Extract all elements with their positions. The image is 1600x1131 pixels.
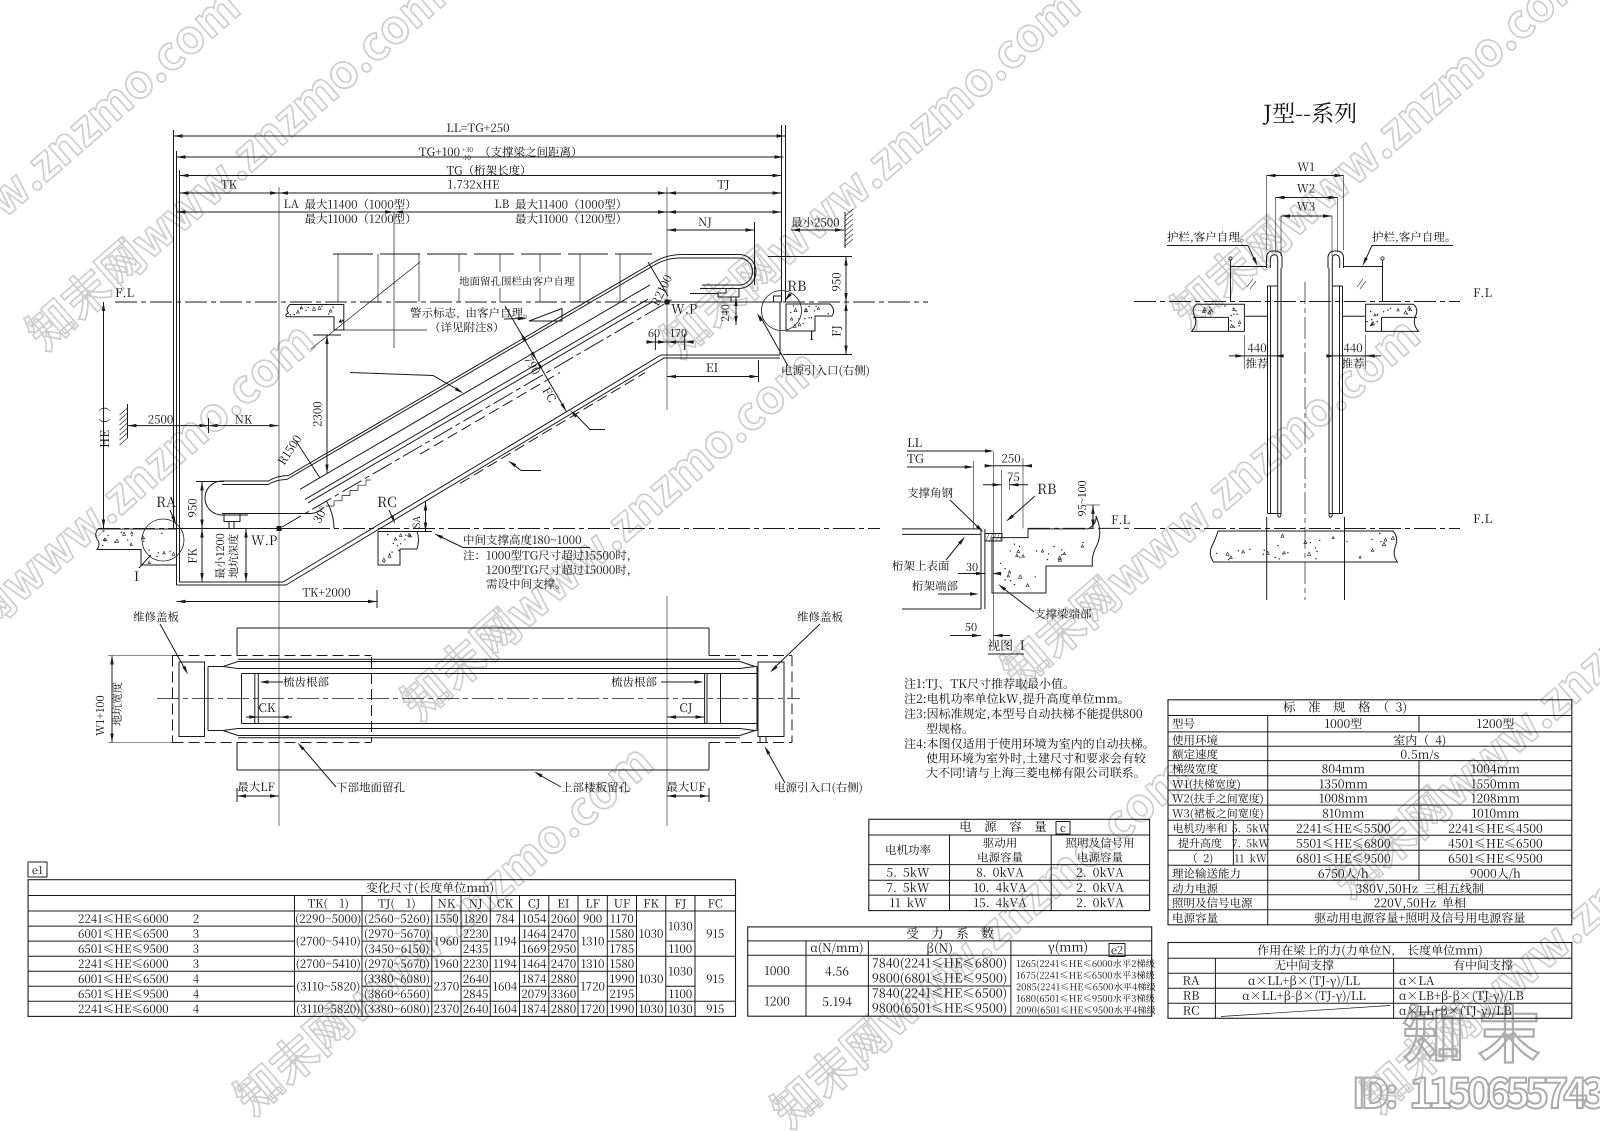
plan centerline dash-dot	[157, 698, 800, 700]
dim 240	[735, 297, 737, 325]
detail dim 30	[966, 563, 977, 571]
plan pit dashed outline	[173, 655, 372, 657]
plan skirt lines	[242, 673, 758, 675]
detail dim 250	[1002, 454, 1020, 463]
dim 2300	[313, 334, 341, 336]
fence label ground opening	[457, 272, 577, 288]
table standard specs	[1168, 700, 1572, 925]
table changing dims title	[366, 882, 493, 895]
plan comb plates	[254, 674, 256, 724]
detail label support angle	[907, 487, 952, 498]
plan handrail band bottom	[208, 730, 223, 732]
detail label truss end	[912, 580, 957, 591]
table changing dims header	[308, 898, 348, 910]
dim SA support gap	[417, 531, 432, 533]
table changing dims rows	[79, 914, 168, 923]
plan left cover plate	[179, 662, 205, 737]
balustrade glass panel line	[300, 285, 650, 489]
dim 2500 / NK at bottom floor	[148, 415, 172, 424]
plan handrail band top	[208, 666, 223, 668]
label W.P top	[671, 304, 697, 314]
leader to hidden line	[511, 463, 541, 471]
detail label support beam end	[1034, 608, 1091, 619]
dim LA LB	[284, 200, 299, 208]
dim CK	[259, 703, 275, 712]
plan truss ends	[207, 667, 209, 731]
dim W2	[1297, 184, 1315, 193]
top landing floor solid	[646, 301, 782, 303]
bottom newel post	[224, 514, 240, 522]
dim TG+100 support beam distance	[419, 147, 459, 156]
dim FK pit depth	[201, 529, 203, 583]
label lower floor opening	[336, 782, 404, 793]
bottom left concrete slab	[96, 529, 177, 565]
table changing dims box	[28, 880, 735, 1017]
plan pit inner dashed line	[371, 657, 373, 742]
steps zigzag at bottom transition	[326, 480, 371, 506]
right wall hatch	[844, 212, 846, 248]
top floor F.L dash-dot line	[115, 301, 648, 303]
label R1500	[277, 434, 302, 465]
detail truss end verticals	[980, 529, 982, 609]
table force coefficients	[748, 927, 1152, 1016]
dim W1+100 pit width	[111, 656, 113, 743]
dim NJ	[699, 218, 712, 228]
left balustrade glass and rails	[1267, 251, 1283, 268]
note mid support text	[464, 534, 581, 545]
section title J series	[1263, 102, 1356, 125]
dim 950 right	[768, 256, 852, 258]
plan truss outer edge double lines	[238, 658, 740, 660]
step line dash-dot along incline	[282, 300, 672, 528]
section lower F.L line	[1134, 528, 1460, 530]
right guard fence	[1344, 266, 1383, 268]
dim min 2500 right wall	[791, 217, 839, 227]
dim 440 left	[1243, 335, 1245, 369]
dim HE total rise	[103, 302, 105, 529]
handrail inner line	[222, 258, 753, 485]
left extension lines	[173, 130, 175, 529]
detail label TG	[907, 454, 923, 463]
top right floor slab concrete	[786, 304, 834, 331]
detail ext verticals	[993, 452, 995, 640]
dim 30 degree angle	[327, 501, 335, 528]
diagonal break line near opening	[311, 262, 420, 349]
bottom floor F.L dash-dot line	[98, 528, 880, 530]
dim 60 and 170 top	[649, 329, 660, 337]
bottom landing floor solid	[177, 528, 311, 530]
dim EI	[706, 363, 717, 372]
dim 440 right	[1365, 335, 1367, 369]
detail F.L line	[1028, 527, 1130, 529]
right wall double line	[781, 125, 783, 302]
label comb root right	[611, 676, 656, 687]
warning sign symbol on handrail	[529, 309, 562, 322]
top newel post	[718, 289, 739, 298]
table forces on beams	[1168, 943, 1572, 1019]
left wall hatch for 2500	[127, 404, 129, 438]
dim FJ right	[783, 354, 852, 356]
upper floor left slab at opening edge	[286, 305, 344, 331]
section upper left slab	[1192, 304, 1245, 331]
detail view title	[987, 639, 1024, 651]
skirt deck lines	[305, 299, 648, 499]
label R2100	[651, 274, 673, 306]
mid support concrete slab	[378, 532, 419, 566]
dim max LF	[238, 781, 275, 792]
label repair cover left	[134, 611, 179, 622]
label power inlet plan	[775, 782, 861, 794]
plan power inlet box	[760, 737, 766, 743]
label e1 box	[28, 862, 47, 877]
detail support beam concrete	[992, 516, 1100, 593]
top deck horizontal	[690, 293, 718, 295]
fence posts	[337, 254, 339, 302]
leader to truss bottom	[573, 412, 605, 430]
RC diagonal slash	[1221, 1006, 1390, 1017]
section centerline	[1304, 282, 1306, 600]
label repair cover right	[798, 611, 843, 622]
label comb root left	[283, 676, 328, 687]
table power capacity	[869, 819, 1150, 910]
label W.P bottom	[251, 536, 277, 546]
dim 950 bottom handrail height	[196, 481, 224, 483]
hidden dashed line below truss	[460, 373, 645, 484]
section lower slab	[1210, 531, 1397, 562]
leader line to warning note	[334, 329, 427, 331]
detail label truss top surface	[892, 560, 949, 571]
dim TG truss length	[447, 165, 524, 176]
detail label LL	[908, 438, 922, 447]
notes 1-4	[904, 678, 1066, 690]
label RB top with leader	[788, 281, 806, 291]
section upper F.L line	[1134, 301, 1460, 303]
detail circle I bottom	[142, 519, 184, 561]
right balustrade glass and rails	[1328, 251, 1344, 268]
truss right end vertical	[779, 302, 781, 355]
watermark big zhimo logo	[1404, 1004, 1538, 1062]
dim max UF	[667, 781, 706, 792]
plan floor opening solid rect	[237, 627, 709, 629]
warning sign label	[410, 307, 526, 319]
bottom deck horizontal	[222, 513, 312, 515]
dim W3	[1297, 202, 1315, 211]
label upper floor opening	[561, 782, 629, 793]
truss bottom chord double line	[283, 355, 780, 582]
dim TK+2000	[303, 588, 350, 597]
plan right cover plate	[758, 662, 784, 737]
section well walls below	[1266, 517, 1268, 600]
construction centerline top WP	[666, 187, 668, 410]
detail dim 95-100	[1078, 481, 1086, 516]
handrail outer line with newels	[222, 255, 756, 482]
construction centerline bottom WP	[278, 187, 280, 826]
label RC with leader	[378, 497, 396, 508]
left guard fence	[1231, 266, 1267, 268]
fence on upper floor rail	[333, 253, 652, 255]
hidden dashed line below steps	[420, 373, 560, 455]
watermark ID number	[1356, 1077, 1600, 1108]
label power inlet elevation	[782, 365, 868, 377]
dim TK / 1.732xHE / TJ	[221, 180, 237, 188]
detail circle I top	[762, 291, 802, 331]
label RA with leader	[157, 497, 176, 507]
detail label RB	[1038, 484, 1056, 494]
label guard rail right	[1372, 231, 1448, 243]
top right support bracket	[774, 296, 782, 302]
section upper right slab	[1366, 304, 1419, 331]
detail truss top surface double	[902, 528, 981, 530]
pit bottom double line	[177, 584, 287, 586]
watermark tiled znzmo	[0, 0, 243, 365]
dim LL=TG+250	[447, 123, 509, 132]
dim W1	[1297, 163, 1314, 172]
detail dim 75	[1008, 473, 1019, 482]
leader to handrail	[350, 373, 461, 392]
detail dim 50	[965, 623, 976, 631]
label guard rail left	[1167, 231, 1243, 243]
dim min1200 pit depth labels	[215, 534, 225, 579]
detail support angle hatched	[985, 534, 1002, 542]
dim 790 / FC perpendicular	[505, 306, 567, 412]
dim CJ	[680, 703, 692, 714]
